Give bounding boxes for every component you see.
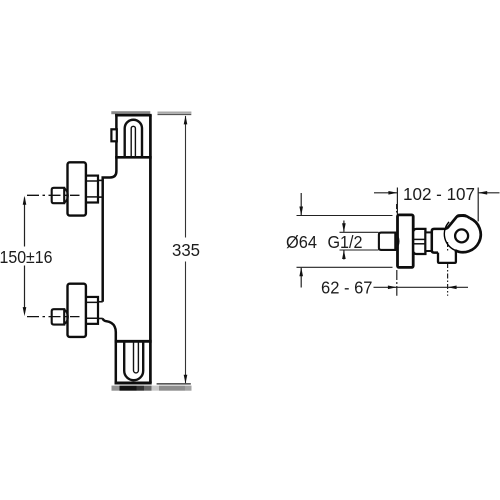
Ø64 dimension line bottom + arrow [300, 268, 302, 288]
body left outline lower (S-curve below bottom inlet) [103, 318, 116, 384]
arrow down to wall bottom [184, 375, 188, 384]
side view: supply stub [379, 233, 395, 250]
G1/2 dimension top arrow [343, 221, 345, 232]
hex nut [86, 297, 98, 324]
bottom handle arch inner slot [134, 341, 139, 373]
G1/2 dimension bottom arrow [343, 251, 345, 260]
side view: knob circle thin left arc [444, 222, 456, 251]
side view: wall flange [398, 215, 414, 268]
side view: valve body [432, 229, 445, 253]
dimension 150±16 line upper part [24, 198, 26, 247]
outlet axis centerline [447, 242, 449, 296]
neck top line [98, 301, 103, 303]
svg-text:335: 335 [172, 240, 200, 260]
dimension 102-107 right arrow [479, 192, 500, 194]
side nut facet lines [413, 238, 425, 240]
arrow down to bottom centerline [23, 307, 27, 316]
top handle arch outer [125, 120, 142, 158]
cartridge tab on housing left [111, 129, 116, 141]
wall centerline above flange (side view) [396, 204, 398, 215]
side view: knob inner circle [455, 229, 468, 242]
extension line 335 bottom (black thin) [157, 383, 191, 385]
Ø64 extension line bottom [297, 266, 393, 268]
neck bottom line [98, 317, 103, 319]
valve body outline right edge [149, 115, 152, 383]
side view: knob circle thin top arc [458, 215, 467, 218]
dimension 335 line lower part [185, 262, 187, 384]
side view: knob silhouette thick arc [455, 218, 481, 252]
nut facet line upper [86, 301, 98, 303]
nut facet line upper [86, 180, 98, 182]
valve body bottom edge [115, 382, 152, 385]
valve body top edge [115, 114, 152, 117]
svg-text:62 - 67: 62 - 67 [321, 278, 373, 298]
dimension 102-107 left arrow [374, 192, 397, 194]
supply pipe stub [52, 309, 64, 324]
Ø64 dimension line top + arrow [300, 193, 302, 215]
centerline top inlet [27, 194, 80, 196]
wall flange [68, 284, 86, 337]
extension line 102-107 right [477, 188, 479, 222]
neck top line [98, 179, 103, 181]
extension line 335 top [158, 114, 192, 116]
62-67 right arrow (outside) [448, 286, 468, 288]
dimension 150±16 line lower part [24, 266, 26, 313]
svg-text:Ø64: Ø64 [286, 232, 317, 252]
extension line 102-107 left (wall face) [396, 188, 398, 215]
G1/2 extension line bottom [340, 249, 379, 251]
stub end dome [64, 309, 68, 324]
top handle arch inner slot [131, 126, 135, 157]
dimension 62-67 line [374, 286, 448, 288]
side view: outlet [438, 251, 456, 263]
neck bottom line [98, 196, 103, 198]
svg-text:102 - 107: 102 - 107 [403, 184, 475, 204]
hex nut [86, 176, 98, 203]
wall line bottom (gray bar segments) [112, 386, 120, 391]
G1/2 extension line top [340, 231, 379, 233]
supply pipe stub [52, 188, 64, 203]
bottom handle arch outer [124, 341, 143, 380]
side view: hex nut [413, 229, 425, 254]
nut facet line lower [86, 317, 98, 319]
stub end dome [64, 188, 68, 203]
centerline bottom inlet [27, 316, 80, 318]
wall line top (gray, left segment above valve) [111, 111, 150, 114]
wall flange [68, 162, 86, 215]
side view: neck [425, 232, 431, 251]
svg-text:G1/2: G1/2 [328, 232, 363, 252]
side view: knob hump [445, 215, 470, 228]
wall centerline below flange / 62-67 extension [396, 270, 398, 296]
arrow up to wall top [184, 115, 188, 124]
dimension 335 line upper part [185, 116, 187, 238]
wall line top (gray, right segment) [158, 112, 192, 114]
arrow up to top centerline [23, 196, 27, 205]
body left outline upper (housing edge + S-curve into mid body edge) [103, 114, 117, 302]
side stub end dome [395, 233, 398, 250]
bottom housing divider [115, 340, 152, 343]
Ø64 extension line top [297, 215, 393, 217]
svg-text:150±16: 150±16 [0, 247, 53, 267]
top housing divider [115, 156, 152, 159]
nut facet line lower [86, 196, 98, 198]
